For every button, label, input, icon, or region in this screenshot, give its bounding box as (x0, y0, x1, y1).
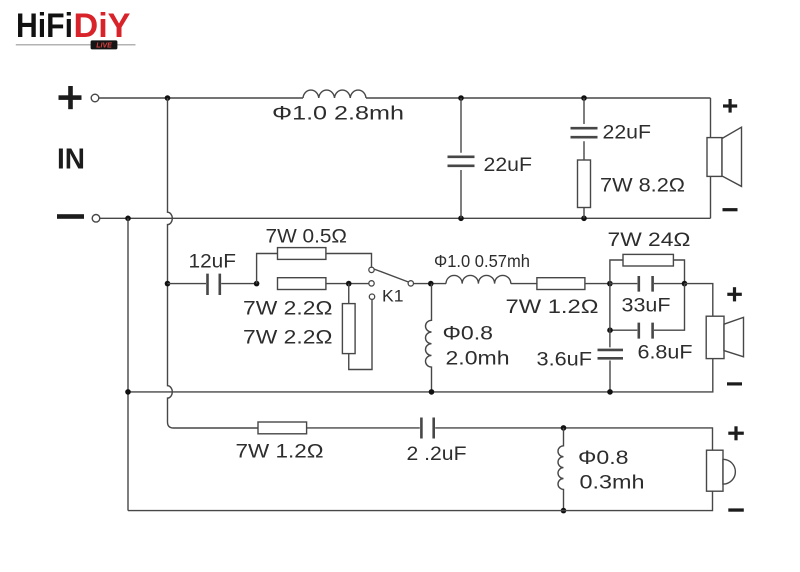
label C1 22uF (484, 155, 533, 176)
label C5 6.8uF (638, 343, 693, 364)
label L4 phi (578, 448, 629, 469)
HIFIDIY logo (16, 7, 131, 45)
junction mid node (607, 281, 613, 287)
junction top rail C1 (458, 95, 464, 101)
resistor R5 7W 1.2ohm (537, 278, 585, 290)
SP1 + mark (723, 99, 737, 113)
junction minus rail left (125, 216, 131, 222)
label R7 value (236, 442, 324, 463)
wire bottom rail (128, 491, 713, 510)
resistor R6 7W 24ohm branch (610, 254, 685, 283)
label C3 12uF (189, 252, 237, 273)
svg-text:LIVE: LIVE (96, 43, 112, 50)
svg-text:DiY: DiY (74, 7, 131, 45)
switch contact middle (369, 281, 374, 286)
svg-text:7W 2.2Ω: 7W 2.2Ω (243, 299, 333, 320)
wire mid branch to contact (326, 283, 369, 285)
junction mid rail left (125, 389, 131, 395)
label C7 value (407, 444, 467, 465)
label C4 33uF (622, 296, 671, 317)
inductor L1 (303, 90, 366, 98)
svg-text:7W 1.2Ω: 7W 1.2Ω (506, 297, 599, 318)
capacitor C2 22uF (571, 98, 598, 160)
input terminal + circle (91, 94, 99, 102)
junction mid speaker node (682, 281, 688, 287)
label K1 (382, 287, 404, 306)
svg-text:HiFi: HiFi (16, 7, 73, 45)
wire speaker1 vertical (710, 98, 712, 218)
switch K1 blade (374, 269, 408, 282)
switch K1 common contact (408, 281, 413, 286)
label L3 phi (443, 324, 494, 345)
junction C5 tap (607, 327, 613, 333)
wire left rail vertical (127, 218, 129, 510)
junction mid split (254, 281, 260, 287)
capacitor C6 3.6uF (598, 284, 624, 392)
input terminal - circle (92, 215, 100, 223)
SP3 + mark (728, 426, 744, 440)
capacitor C4 33uF (610, 276, 685, 292)
svg-text:7W 2.2Ω: 7W 2.2Ω (243, 328, 333, 349)
svg-text:7W 1.2Ω: 7W 1.2Ω (236, 442, 324, 463)
wire top rail left (99, 97, 303, 99)
junction minus rail C1 (458, 216, 464, 222)
label R6 value (608, 230, 691, 251)
switch contact bottom (369, 294, 374, 299)
wire feed vertical with hops (168, 98, 174, 428)
wire R7 to C7 (307, 427, 420, 429)
speaker SP2 midrange (706, 316, 743, 358)
svg-text:IN: IN (57, 144, 85, 176)
svg-text:7W 0.5Ω: 7W 0.5Ω (266, 227, 348, 248)
input terminal - symbol (57, 214, 84, 219)
inductor L4 vertical (558, 428, 563, 511)
capacitor C3 12uF (208, 274, 257, 295)
label IN (57, 144, 85, 176)
SP3 - mark (728, 508, 744, 511)
svg-text:3.6uF: 3.6uF (537, 350, 593, 371)
capacitor C7 2.2uF (421, 418, 433, 439)
junction mid feed (165, 281, 171, 287)
LIVE badge (91, 40, 118, 49)
resistor R7 7W 1.2ohm (258, 422, 307, 434)
wire bottom feed (174, 427, 259, 429)
label C2 22uF (603, 123, 652, 144)
wire C7 to SP3 (435, 428, 712, 450)
label L4 value (580, 473, 645, 494)
wire L2 to R5 (511, 283, 537, 285)
resistor R2 7W 0.5ohm (278, 248, 326, 260)
label L1 value (272, 104, 404, 125)
resistor R4 7W 2.2ohm vertical (342, 284, 372, 370)
svg-text:K1: K1 (382, 287, 404, 306)
junction L3 tap (428, 281, 434, 287)
svg-text:7W 24Ω: 7W 24Ω (608, 230, 691, 251)
svg-text:22uF: 22uF (603, 123, 652, 144)
inductor L3 vertical (426, 284, 432, 392)
wire upper branch (257, 254, 278, 284)
input terminal + symbol (59, 86, 82, 109)
svg-text:Φ0.8: Φ0.8 (578, 448, 629, 469)
wire mid feed to C3 (168, 283, 207, 285)
wire common to L2 (414, 283, 446, 285)
SP1 - mark (723, 208, 738, 211)
wire minus rail (100, 217, 711, 219)
svg-text:2.0mh: 2.0mh (446, 349, 510, 370)
svg-text:2 .2uF: 2 .2uF (407, 444, 467, 465)
switch contact top (369, 267, 374, 272)
wire upper branch to contact (326, 254, 372, 267)
capacitor C5 6.8uF branch (610, 284, 685, 339)
wire top rail right (366, 97, 711, 99)
svg-text:22uF: 22uF (484, 155, 533, 176)
junction L4 tap (561, 425, 567, 431)
label L2 value (434, 251, 530, 271)
label C6 3.6uF (537, 350, 593, 371)
junction top rail feed (165, 95, 171, 101)
svg-text:0.3mh: 0.3mh (580, 473, 645, 494)
capacitor C1 22uF (448, 98, 475, 218)
logo underline (16, 44, 136, 46)
junction bottom rail L4 (561, 508, 567, 514)
resistor R1 7W 8.2ohm (578, 160, 591, 218)
label R3 value (243, 299, 333, 320)
speaker SP3 tweeter (707, 450, 736, 491)
svg-text:33uF: 33uF (622, 296, 671, 317)
wire node to SP2 (685, 284, 713, 317)
inductor L2 (446, 275, 511, 283)
SP2 + mark (727, 287, 742, 301)
svg-text:Φ0.8: Φ0.8 (443, 324, 494, 345)
svg-text:12uF: 12uF (189, 252, 237, 273)
svg-text:7W 8.2Ω: 7W 8.2Ω (600, 176, 685, 197)
label L3 value (446, 349, 510, 370)
junction mid rail C6 (607, 389, 613, 395)
wire R5 to node (585, 283, 610, 285)
svg-text:6.8uF: 6.8uF (638, 343, 693, 364)
junction mid rail L3 (429, 389, 435, 395)
speaker SP1 woofer (707, 127, 742, 186)
label R5 value (506, 297, 599, 318)
svg-text:Φ1.0 2.8mh: Φ1.0 2.8mh (272, 104, 404, 125)
SP2 - mark (727, 382, 742, 385)
wire mid bottom rail (128, 359, 713, 392)
label R2 value (266, 227, 348, 248)
svg-text:Φ1.0 0.57mh: Φ1.0 0.57mh (434, 251, 530, 271)
junction R4 tap (346, 281, 352, 287)
junction minus rail C2 (581, 216, 587, 222)
label R1 value (600, 176, 685, 197)
junction top rail C2 (581, 95, 587, 101)
label R4 value (243, 328, 333, 349)
resistor R3 7W 2.2ohm (278, 278, 326, 290)
